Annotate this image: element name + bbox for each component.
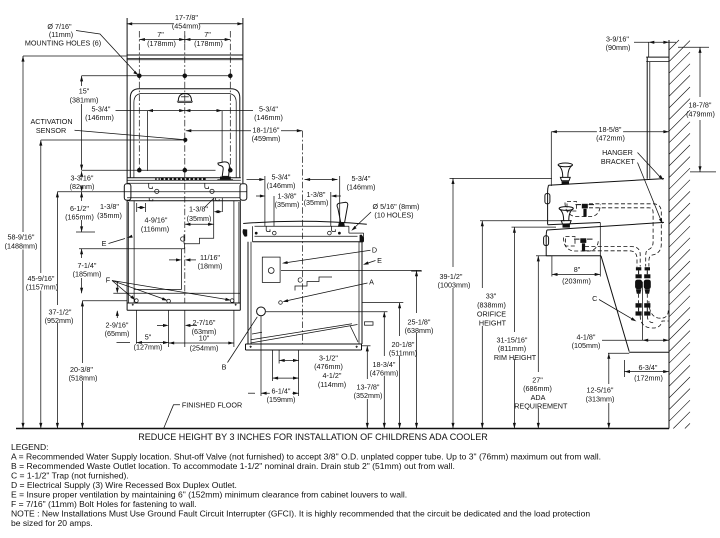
dim 37-1/2 (952mm): [45, 192, 74, 429]
dim 5-3/4 right middle (146mm): [305, 174, 376, 224]
svg-text:15": 15": [79, 87, 90, 96]
svg-text:(313mm): (313mm): [586, 394, 615, 403]
svg-text:4-1/8": 4-1/8": [577, 332, 596, 341]
svg-text:C = 1-1/2" Trap (not furnished: C = 1-1/2" Trap (not furnished).: [11, 471, 129, 481]
rim reference line: [512, 226, 557, 228]
svg-text:10": 10": [199, 334, 210, 343]
finished floor label: [164, 400, 242, 428]
front view panel side edges: [127, 18, 243, 183]
svg-text:6-3/4": 6-3/4": [639, 363, 658, 372]
finished floor line: [16, 428, 669, 430]
dim 1-3/8 (35mm) mid: [187, 199, 223, 224]
wall hatching: [669, 40, 690, 429]
svg-text:(159mm): (159mm): [267, 395, 296, 404]
reference line 13-7/8: [362, 345, 371, 347]
E label and leader middle: [362, 256, 382, 266]
dim 20-3/8 (518mm): [69, 301, 98, 429]
svg-text:33": 33": [486, 292, 497, 301]
dim 18-7/8 (479mm): [678, 47, 716, 172]
svg-text:(127mm): (127mm): [134, 342, 163, 351]
wall face: [668, 40, 670, 429]
dim 39-1/2 (1003mm): [438, 178, 471, 428]
supply location A: [279, 301, 283, 305]
middle view cabinet walls: [248, 242, 362, 344]
centerline symbol middle view: [297, 275, 303, 284]
svg-text:(114mm): (114mm): [318, 380, 346, 389]
lower bubbler side view: [559, 207, 573, 228]
svg-text:(254mm): (254mm): [190, 343, 219, 352]
D label and leader: [282, 246, 377, 265]
svg-text:(1488mm): (1488mm): [5, 241, 38, 250]
orifice reference line upper: [450, 177, 552, 179]
svg-text:F = 7/16" (11mm) Bolt Holes fo: F = 7/16" (11mm) Bolt Holes for fastenin…: [11, 499, 197, 509]
front view bottom band: [127, 303, 240, 310]
dim 5-3/4 left middle (146mm): [247, 173, 296, 227]
svg-text:REQUIREMENT: REQUIREMENT: [514, 401, 568, 410]
dim 2-9/16 (65mm): [105, 281, 130, 338]
lower unit body side view: [544, 222, 664, 255]
svg-text:18-7/8": 18-7/8": [689, 101, 712, 110]
dim 1-3/8 (35mm) left: [97, 202, 145, 220]
dim 7-1/4 (185mm): [73, 249, 102, 294]
centerline symbol front view: [180, 235, 186, 244]
svg-text:B = Recommended Waste Outlet l: B = Recommended Waste Outlet location. T…: [11, 461, 455, 471]
svg-text:18-1/16": 18-1/16": [253, 125, 280, 134]
mounting holes row 1: [82, 74, 233, 78]
svg-text:(472mm): (472mm): [596, 134, 625, 143]
dim 4-1/2 (114mm): [273, 371, 347, 389]
front view cabinet walls: [127, 201, 240, 303]
svg-text:ACTIVATION: ACTIVATION: [30, 117, 72, 126]
svg-text:18-3/4": 18-3/4": [373, 360, 396, 369]
svg-text:be sized for 20 amps.: be sized for 20 amps.: [11, 518, 93, 528]
louver bottom reference line: [113, 292, 240, 294]
dim 8 (203mm) cabinet depth: [552, 256, 600, 285]
dim 4-9/16 (116mm): [141, 215, 214, 233]
svg-text:(165mm): (165mm): [65, 213, 94, 222]
svg-text:7": 7": [204, 30, 211, 39]
dim 5 (127mm): [117, 333, 169, 352]
louver top reference line: [79, 248, 134, 250]
C label side view and leader: [592, 294, 637, 323]
svg-text:(35mm): (35mm): [187, 214, 212, 223]
reference line at rail to left: [23, 55, 127, 57]
front view top rail: [127, 55, 243, 60]
front view basin deck: [127, 178, 241, 181]
hanger bracket on wall: [646, 57, 669, 179]
svg-text:7": 7": [157, 30, 164, 39]
adult cabinet bottom: [608, 351, 669, 354]
dim 18-1/16 (459mm) sensor to 2nd unit CL: [186, 125, 303, 143]
front view vertical centerline: [184, 31, 186, 303]
middle view deck arc: [243, 221, 367, 224]
E label front view: [102, 235, 133, 248]
svg-text:6-1/4": 6-1/4": [272, 386, 291, 395]
front view stepped partition: [182, 224, 214, 248]
svg-text:13-7/8": 13-7/8": [357, 383, 380, 392]
cabinet top tabs: [127, 198, 240, 201]
drain/supply stub lines front view: [214, 198, 223, 224]
svg-text:F: F: [106, 275, 111, 284]
svg-text:12-5/16": 12-5/16": [587, 386, 614, 395]
dim 27 ADA requirement: [514, 256, 568, 429]
middle view stepped partition: [295, 277, 332, 291]
svg-text:58-9/16": 58-9/16": [8, 233, 35, 242]
dim 2-7/16 (63mm): [157, 318, 216, 336]
svg-text:(18mm): (18mm): [198, 261, 223, 270]
svg-text:(65mm): (65mm): [105, 329, 130, 338]
dim 15 (381mm): [70, 76, 99, 170]
dim 58-9/16 (1488mm): [5, 56, 38, 429]
reference line 20-1/8: [363, 302, 404, 304]
svg-text:(178mm): (178mm): [147, 39, 176, 48]
wall bolt circles front view: [135, 299, 234, 303]
svg-text:3-9/16": 3-9/16": [606, 34, 629, 43]
svg-text:8": 8": [574, 265, 581, 274]
dim extension between pipes: [642, 282, 644, 341]
reference line outlet height: [281, 269, 422, 272]
supply stop valves and fittings: [635, 267, 651, 315]
trap dashed: [640, 301, 669, 328]
upper unit supply piping dashed: [589, 204, 661, 267]
svg-text:5": 5": [145, 333, 152, 342]
svg-text:HEIGHT: HEIGHT: [479, 319, 507, 328]
svg-text:E = Insure proper ventilation: E = Insure proper ventilation by maintai…: [11, 490, 407, 500]
svg-text:(178mm): (178mm): [194, 39, 223, 48]
label mounting holes: [25, 22, 140, 76]
electrical box D: [262, 257, 280, 282]
dim extension lines below band: [136, 310, 234, 347]
reference line 18-3/4: [266, 311, 388, 313]
svg-text:(638mm): (638mm): [405, 326, 434, 335]
dim 25-1/8 (638mm): [405, 271, 434, 429]
dim 11/16 (18mm): [169, 253, 222, 271]
svg-text:(811mm): (811mm): [498, 344, 526, 353]
upper unit hidden internals: [565, 202, 600, 217]
front view back panel rounded outline: [130, 89, 240, 178]
dim 18-5/8 (472mm): [551, 125, 669, 186]
svg-text:(10 HOLES): (10 HOLES): [374, 211, 413, 220]
svg-text:(146mm): (146mm): [254, 113, 283, 122]
dim 1-3/8 left middle: [256, 192, 299, 227]
reduce height note: [138, 432, 488, 442]
mounting hole centerlines (dashed): [139, 31, 230, 171]
svg-text:(90mm): (90mm): [606, 43, 631, 52]
dim 17-7/8 (454mm) overall width: [127, 13, 243, 31]
middle view bottom band: [246, 344, 362, 350]
svg-text:(203mm): (203mm): [562, 276, 591, 285]
svg-text:(479mm): (479mm): [686, 109, 715, 118]
activation sensor label: [30, 117, 187, 142]
svg-text:18-5/8": 18-5/8": [599, 125, 622, 134]
dim 6-1/2 (165mm) left: [65, 192, 95, 232]
svg-text:E: E: [102, 239, 107, 248]
svg-text:E: E: [377, 256, 382, 265]
svg-text:LEGEND:: LEGEND:: [11, 442, 49, 452]
svg-text:RIM HEIGHT: RIM HEIGHT: [494, 353, 537, 362]
svg-text:25-1/8": 25-1/8": [408, 318, 431, 327]
svg-text:(146mm): (146mm): [85, 113, 114, 122]
svg-text:(952mm): (952mm): [45, 316, 74, 325]
dim 3-3/16 (82mm): [70, 171, 95, 192]
svg-text:C: C: [592, 294, 597, 303]
svg-text:A = Recommended Water Supply l: A = Recommended Water Supply location. S…: [11, 451, 601, 461]
svg-text:(146mm): (146mm): [347, 183, 376, 192]
dim 45-9/16 (1157mm): [26, 140, 58, 429]
svg-text:(1157mm): (1157mm): [26, 282, 58, 291]
upper unit body side view: [545, 179, 664, 225]
dim 10 (254mm): [169, 334, 234, 353]
svg-text:(1003mm): (1003mm): [438, 281, 471, 290]
dim 6-3/4 (172mm): [624, 360, 668, 382]
svg-text:(185mm): (185mm): [73, 270, 102, 279]
dim 3-1/2 (476mm): [279, 354, 343, 372]
orifice reference line lower: [480, 220, 565, 222]
svg-text:ORIFICE: ORIFICE: [477, 310, 506, 319]
bubbler on deck (front view): [217, 162, 233, 180]
svg-text:D = Electrical Supply (3) Wire: D = Electrical Supply (3) Wire Recessed …: [11, 480, 237, 490]
svg-text:(511mm): (511mm): [389, 349, 417, 358]
svg-text:C: C: [297, 275, 303, 284]
svg-text:3-3/16": 3-3/16": [71, 173, 94, 182]
label 10 holes: [350, 202, 419, 232]
mounting holes row 2: [82, 168, 233, 172]
svg-text:(35mm): (35mm): [97, 211, 122, 220]
rim height reference line: [57, 191, 124, 193]
svg-text:BRACKET: BRACKET: [601, 157, 636, 166]
A label and leader: [282, 278, 374, 304]
svg-text:(476mm): (476mm): [370, 369, 399, 378]
svg-text:FINISHED FLOOR: FINISHED FLOOR: [182, 400, 242, 409]
middle view mounting band: [243, 226, 364, 242]
svg-text:REDUCE HEIGHT BY 3 INCHES FOR: REDUCE HEIGHT BY 3 INCHES FOR INSTALLATI…: [138, 432, 488, 442]
dim 3-9/16 (90mm): [606, 34, 676, 57]
dim 31-15/16 rim height: [494, 227, 537, 428]
middle view lower dim extensions: [261, 316, 299, 396]
svg-text:(838mm): (838mm): [477, 301, 506, 310]
svg-text:3-1/2": 3-1/2": [319, 354, 338, 363]
svg-text:HANGER: HANGER: [602, 148, 633, 157]
dim 12-5/16 (313mm): [586, 353, 615, 428]
bubbler on panel top center: [177, 94, 193, 103]
svg-text:(352mm): (352mm): [354, 391, 383, 400]
F label and leaders: [106, 275, 231, 302]
middle view centerline: [301, 131, 303, 344]
dim 13-7/8 (352mm): [354, 346, 383, 429]
dim 4-1/8 (105mm) drain stub: [572, 332, 669, 350]
front view apron band: [124, 183, 247, 201]
dim 33 orifice height: [477, 221, 507, 429]
adult cabinet taper side view: [601, 256, 629, 352]
front view louver panel: [134, 249, 182, 290]
upper bubbler side view: [558, 163, 572, 185]
svg-text:(476mm): (476mm): [314, 362, 343, 371]
svg-text:D: D: [372, 246, 377, 255]
svg-text:(105mm): (105mm): [572, 341, 601, 350]
dim 18-3/4 (476mm): [370, 312, 399, 429]
middle view bubbler: [337, 202, 348, 226]
sensor height reference line: [41, 139, 184, 141]
legend text block: [11, 442, 601, 528]
bolt height reference line: [82, 300, 127, 302]
svg-text:4-9/16": 4-9/16": [145, 215, 168, 224]
svg-text:B: B: [222, 362, 227, 371]
svg-text:A: A: [369, 278, 374, 287]
svg-text:1-3/8": 1-3/8": [189, 205, 208, 214]
svg-text:C: C: [180, 235, 186, 244]
svg-text:SENSOR: SENSOR: [36, 126, 66, 135]
svg-text:(35mm): (35mm): [275, 200, 300, 209]
dim 7" (178mm) hole spacing pair: [139, 30, 230, 48]
svg-text:(35mm): (35mm): [304, 198, 329, 207]
svg-text:(172mm): (172mm): [634, 373, 663, 382]
svg-text:MOUNTING HOLES (6): MOUNTING HOLES (6): [25, 38, 101, 47]
dim 20-1/8 (511mm): [389, 303, 417, 429]
lower unit piping dashed: [585, 247, 640, 267]
dim 6-1/4 (159mm): [248, 386, 299, 404]
svg-text:(454mm): (454mm): [172, 22, 201, 31]
dim 1-3/8 right middle: [304, 190, 341, 226]
lower unit hidden internals: [564, 237, 599, 252]
svg-text:(82mm): (82mm): [70, 182, 95, 191]
svg-text:(146mm): (146mm): [267, 181, 296, 190]
louver detail mark: [365, 322, 374, 325]
svg-text:(518mm): (518mm): [69, 373, 98, 382]
svg-text:4-1/2": 4-1/2": [323, 371, 342, 380]
svg-text:(381mm): (381mm): [70, 96, 99, 105]
svg-text:(459mm): (459mm): [252, 134, 281, 143]
svg-text:NOTE : New Installations Must: NOTE : New Installations Must Use Ground…: [11, 509, 590, 519]
middle view louvers: [251, 324, 359, 343]
svg-text:(116mm): (116mm): [141, 224, 169, 233]
dim 5-3/4 pair front view (146mm): [85, 104, 283, 171]
waste outlet circle B: [257, 307, 266, 316]
svg-text:Ø 5/16" (8mm): Ø 5/16" (8mm): [373, 202, 420, 211]
hanger bracket label: [601, 148, 665, 225]
B label and leader: [222, 317, 258, 372]
